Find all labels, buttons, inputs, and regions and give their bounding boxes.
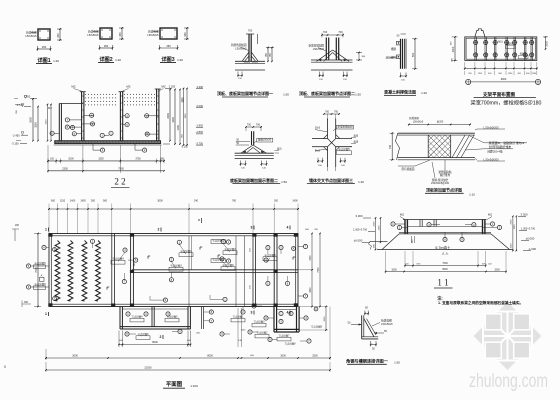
svg-text:2000: 2000 — [511, 219, 513, 225]
svg-text:600: 600 — [51, 200, 56, 203]
svg-text:350: 350 — [183, 32, 187, 37]
svg-text:1.300~0.700: 1.300~0.700 — [353, 229, 368, 232]
svg-text:节点详图1: 节点详图1 — [233, 315, 245, 319]
svg-text:1:20: 1:20 — [53, 59, 59, 63]
svg-text:250: 250 — [104, 44, 109, 48]
svg-text:1:20: 1:20 — [421, 91, 427, 95]
svg-text:300: 300 — [274, 200, 279, 203]
svg-text:1:50: 1:50 — [394, 361, 400, 365]
svg-text:1:20: 1:20 — [115, 58, 121, 62]
svg-text:6600: 6600 — [501, 78, 507, 81]
svg-text:1200: 1200 — [177, 125, 180, 131]
svg-text:1800: 1800 — [185, 113, 187, 119]
svg-text:M16: M16 — [498, 42, 503, 44]
svg-text:4: 4 — [287, 226, 289, 230]
svg-text:2 2: 2 2 — [114, 177, 125, 187]
svg-text:1300: 1300 — [378, 225, 380, 231]
svg-text:700: 700 — [247, 123, 252, 126]
svg-text:7900: 7900 — [118, 168, 124, 171]
svg-text:人 人: 人 人 — [442, 252, 449, 256]
svg-text:详图2: 详图2 — [99, 55, 112, 63]
svg-text:3.300: 3.300 — [521, 213, 528, 217]
svg-text:L 50x5@200: L 50x5@200 — [483, 157, 499, 161]
svg-text:1:50: 1:50 — [281, 180, 287, 184]
svg-text:1500: 1500 — [494, 268, 500, 271]
svg-text:760: 760 — [325, 111, 330, 114]
svg-text:2000: 2000 — [546, 41, 549, 47]
svg-text:1 1: 1 1 — [437, 278, 448, 288]
svg-text:新增角钢加固: 新增角钢加固 — [231, 43, 247, 47]
svg-text:3000: 3000 — [72, 355, 78, 358]
svg-text:节点详图2: 节点详图2 — [224, 247, 236, 251]
svg-text:4: 4 — [287, 311, 289, 315]
svg-text:700: 700 — [338, 30, 343, 34]
svg-text:3250: 3250 — [98, 158, 104, 161]
svg-text:梁宽700mm，螺栓规格S＠180: 梁宽700mm，螺栓规格S＠180 — [471, 98, 542, 106]
svg-text:250: 250 — [166, 44, 171, 48]
svg-text:780: 780 — [232, 200, 237, 203]
svg-text:1. 支座与原联系梁之间的空隙采用细石混凝土填实。: 1. 支座与原联系梁之间的空隙采用细石混凝土填实。 — [438, 300, 523, 305]
svg-text:平面图: 平面图 — [166, 380, 183, 388]
svg-text:节点详图9: 节点详图9 — [285, 342, 297, 346]
svg-text:详图3: 详图3 — [161, 55, 174, 63]
svg-text:300: 300 — [24, 301, 29, 304]
svg-text:1: 1 — [45, 312, 47, 316]
svg-text:2000: 2000 — [373, 221, 375, 227]
svg-text:节点详图2: 节点详图2 — [257, 331, 269, 335]
svg-text:详图1: 详图1 — [37, 56, 50, 64]
svg-text:M2: M2 — [400, 213, 404, 217]
svg-text:间距200-4处: 间距200-4处 — [487, 150, 503, 154]
svg-text:墙体交叉节点加固详图三: 墙体交叉节点加固详图三 — [309, 177, 353, 183]
svg-text:760: 760 — [334, 111, 339, 114]
svg-text:3300: 3300 — [310, 255, 312, 261]
svg-text:L50x50x5: L50x50x5 — [381, 322, 393, 326]
svg-text:-2.450: -2.450 — [12, 133, 20, 137]
svg-text:3.300: 3.300 — [197, 85, 204, 89]
svg-text:1:100: 1:100 — [190, 384, 198, 388]
svg-text:支架平面布置图: 支架平面布置图 — [483, 91, 516, 98]
svg-text:350: 350 — [118, 32, 122, 37]
svg-text:2: 2 — [160, 335, 162, 339]
svg-text:节点详图7: 节点详图7 — [279, 334, 291, 338]
svg-text:8@50: 8@50 — [520, 53, 527, 56]
svg-text:50x5: 50x5 — [315, 128, 321, 130]
svg-text:±0.000: ±0.000 — [526, 237, 535, 241]
svg-text:A: A — [41, 274, 43, 278]
svg-text:-3.150: -3.150 — [11, 142, 19, 146]
svg-text:3: 3 — [251, 311, 253, 315]
svg-text:2: 2 — [158, 228, 160, 232]
svg-text:1:20: 1:20 — [177, 58, 183, 62]
svg-text:节点详图8: 节点详图8 — [311, 325, 323, 329]
svg-text:M2: M2 — [126, 85, 130, 89]
svg-text:1:50: 1:50 — [283, 93, 289, 97]
svg-text:顶板梁加固节点详图: 顶板梁加固节点详图 — [426, 187, 462, 193]
svg-text:原有梁截面: 原有梁截面 — [402, 167, 415, 171]
svg-text:L50x50x5: L50x50x5 — [25, 34, 37, 38]
svg-text:4200: 4200 — [310, 287, 312, 293]
svg-text:1:10: 1:10 — [469, 193, 475, 197]
svg-text:21500: 21500 — [144, 366, 152, 370]
svg-text:节点详图4: 节点详图4 — [132, 315, 144, 319]
svg-text:L50x50x5: L50x50x5 — [235, 47, 247, 51]
svg-text:3150: 3150 — [45, 119, 47, 125]
svg-text:0.000: 0.000 — [197, 104, 204, 108]
svg-text:1400: 1400 — [292, 200, 298, 203]
svg-text:节点详图5: 节点详图5 — [34, 261, 46, 265]
svg-text:500: 500 — [91, 200, 96, 203]
svg-text:-3.750: -3.750 — [196, 141, 204, 145]
svg-text:-3.150: -3.150 — [181, 146, 188, 149]
svg-text:L 50x5@200: L 50x5@200 — [483, 125, 499, 129]
svg-text:7500: 7500 — [34, 267, 38, 273]
svg-text:2000: 2000 — [68, 158, 74, 161]
svg-text:底板梁加固端加固示意图二: 底板梁加固端加固示意图二 — [229, 177, 278, 183]
svg-text:1300: 1300 — [514, 224, 516, 230]
svg-text:-1.800: -1.800 — [196, 124, 204, 128]
svg-text:900: 900 — [103, 200, 108, 203]
svg-text:0: 0 — [4, 365, 6, 369]
svg-text:500: 500 — [411, 52, 415, 57]
svg-text:8000: 8000 — [207, 355, 213, 358]
svg-text:3750: 3750 — [135, 158, 141, 161]
svg-text:2500: 2500 — [312, 355, 318, 358]
svg-text:碳纤维布: 碳纤维布 — [440, 173, 451, 177]
svg-text:节点详图3: 节点详图3 — [254, 320, 266, 324]
svg-text:M2: M2 — [488, 213, 492, 217]
svg-text:250: 250 — [42, 45, 47, 49]
svg-text:2000: 2000 — [452, 46, 455, 52]
svg-text:1150: 1150 — [60, 200, 66, 203]
svg-text:700: 700 — [323, 30, 328, 34]
svg-text:240: 240 — [194, 200, 199, 203]
svg-text:-2.800: -2.800 — [196, 130, 204, 134]
svg-text:1800: 1800 — [172, 117, 175, 123]
svg-text:7500: 7500 — [442, 262, 448, 265]
svg-text:3.300: 3.300 — [356, 214, 363, 218]
svg-text:5.7m填土: 5.7m填土 — [435, 245, 451, 250]
svg-text:节点详图2: 节点详图2 — [264, 253, 276, 257]
svg-text:节点详图6: 节点详图6 — [34, 282, 46, 286]
svg-text:1:20: 1:20 — [358, 180, 364, 184]
svg-text:zhulong.com: zhulong.com — [469, 370, 548, 392]
svg-text:8@50: 8@50 — [507, 42, 514, 45]
svg-text:8000: 8000 — [152, 341, 158, 344]
svg-text:节点详图5: 节点详图5 — [167, 315, 179, 319]
svg-text:2.200: 2.200 — [169, 85, 176, 89]
svg-text:3000: 3000 — [157, 200, 163, 203]
svg-text:@200: @200 — [437, 121, 444, 124]
svg-text:3550: 3550 — [35, 122, 38, 128]
svg-text:±0.000: ±0.000 — [354, 239, 363, 243]
svg-text:200: 200 — [15, 224, 20, 227]
svg-text:角钢与槽钢连接详图一: 角钢与槽钢连接详图一 — [346, 358, 389, 365]
svg-text:3300: 3300 — [181, 97, 183, 103]
svg-text:1:50: 1:50 — [355, 93, 361, 97]
svg-text:L50x50x5: L50x50x5 — [87, 33, 99, 37]
svg-text:2600: 2600 — [30, 117, 33, 123]
svg-text:混凝土斜撑做法图: 混凝土斜撑做法图 — [384, 89, 416, 95]
svg-text:-1.000: -1.000 — [528, 247, 536, 251]
svg-text:1400: 1400 — [70, 200, 76, 203]
svg-text:顶板、底板梁加固端节点详图二: 顶板、底板梁加固端节点详图二 — [299, 90, 355, 96]
svg-text:1450: 1450 — [80, 200, 86, 203]
svg-text:封闭环箍碳纤维布: 封闭环箍碳纤维布 — [489, 145, 512, 149]
svg-text:2000: 2000 — [167, 113, 170, 119]
svg-text:L50x50x5: L50x50x5 — [147, 33, 159, 37]
svg-text:1: 1 — [45, 228, 47, 232]
svg-text:700: 700 — [256, 123, 261, 126]
svg-text:1500: 1500 — [391, 268, 397, 271]
svg-text:节点详图5: 节点详图5 — [338, 147, 350, 151]
svg-text:2300: 2300 — [62, 168, 68, 171]
svg-text:350: 350 — [56, 33, 60, 38]
svg-text:3000: 3000 — [280, 355, 286, 358]
svg-text:700: 700 — [248, 29, 253, 33]
svg-text:9500: 9500 — [442, 268, 448, 271]
svg-text:M2: M2 — [71, 85, 75, 89]
svg-text:顶板、底板梁加固端节点详图一: 顶板、底板梁加固端节点详图一 — [217, 90, 273, 96]
svg-text:节点详图1: 节点详图1 — [212, 239, 224, 243]
svg-text:新增角钢: 新增角钢 — [409, 116, 419, 120]
svg-text:槽钢: 槽钢 — [391, 47, 397, 51]
svg-text:1.300: 1.300 — [24, 95, 31, 99]
svg-text:节点详图3: 节点详图3 — [170, 264, 182, 268]
svg-text:L50x50x5@100: L50x50x5@100 — [431, 181, 450, 185]
svg-text:节点详图1: 节点详图1 — [180, 249, 192, 253]
svg-text:3: 3 — [251, 226, 253, 230]
svg-text:新增角钢加固: 新增角钢加固 — [308, 44, 324, 48]
svg-text:M1: M1 — [48, 106, 52, 110]
svg-text:3000: 3000 — [324, 316, 326, 322]
svg-text:7500: 7500 — [318, 267, 320, 273]
svg-text:节点详图6: 节点详图6 — [138, 332, 150, 336]
svg-text:节点详图4: 节点详图4 — [112, 257, 124, 261]
svg-text:700: 700 — [389, 144, 392, 149]
svg-text:1000: 1000 — [511, 243, 513, 249]
svg-text:L50x50x5: L50x50x5 — [413, 121, 424, 124]
